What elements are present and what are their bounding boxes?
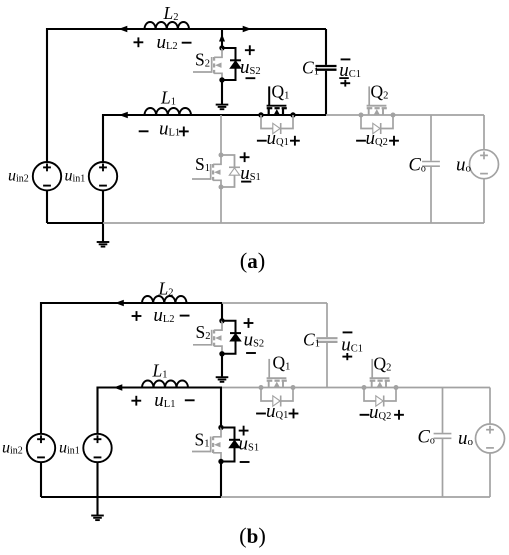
wire: C1 bottom lead (fig b, grey) bbox=[326, 343, 328, 388]
wire: S1 source down to bottom rail (fig a, grey) bbox=[220, 187, 222, 223]
transistor Q2 (fig b, grey) bbox=[385, 381, 387, 388]
junction node S2 source (fig b) bbox=[219, 351, 224, 356]
polarity + of uS2 (fig b) bbox=[244, 322, 254, 324]
current arrow on L1 rail pointing left (fig a) bbox=[119, 112, 128, 119]
polarity - of uS2 (fig b) bbox=[246, 352, 256, 354]
transistor Q1 (fig a, active black) bbox=[282, 108, 284, 115]
current arrow pointing right on top rail toward C1 (fig a) bbox=[243, 26, 252, 33]
polarity - of uL1 (fig a) bbox=[139, 130, 149, 132]
polarity + of uL1 (fig b) bbox=[131, 400, 141, 402]
inductor L2 (fig a) bbox=[145, 22, 190, 29]
junction node Q1 left (fig a) bbox=[258, 112, 263, 117]
polarity + of uS1 (fig a) bbox=[240, 156, 250, 158]
ground symbol below uin1 (fig b) bbox=[91, 515, 104, 517]
wire: output right branch top (fig a, grey) bbox=[483, 115, 485, 150]
switch S1 MOSFET (fig b, grey) bbox=[213, 428, 221, 437]
transistor Q1 (fig b, grey) bbox=[282, 381, 284, 388]
body diode of S1 (fig a, grey hollow) bbox=[221, 155, 235, 187]
wire: S1 source down to bottom rail (fig b) bbox=[220, 462, 222, 498]
wire: mid rail grey from S1 corner to output (fig b) bbox=[222, 387, 490, 389]
value label -uQ1+ (fig a) bbox=[257, 140, 267, 142]
wire: uin2 negative lead down (fig a) bbox=[46, 190, 48, 223]
wire: bottom rail black segment uin2 to uin1 (fig a) bbox=[47, 222, 103, 224]
value label -uQ1+ (fig b) bbox=[256, 413, 266, 415]
wire: output right branch bottom (fig b, grey) bbox=[489, 453, 491, 497]
ground symbol below S2 (fig b) bbox=[216, 376, 229, 378]
wire: Co top lead (fig b, grey) bbox=[442, 388, 444, 433]
wire: bottom rail black uin2 to S1 (fig b) bbox=[41, 496, 221, 498]
current arrow up on S2 drain wire (fig a) bbox=[219, 34, 225, 42]
junction node S1 drain (fig a, grey) bbox=[219, 153, 224, 158]
voltage source uin1 (fig a) bbox=[89, 162, 117, 190]
value label -uQ2+ (fig b) bbox=[360, 414, 370, 416]
polarity - of uS2 (fig a) bbox=[246, 77, 256, 79]
wire: C1 bottom lead to mid rail (fig a) bbox=[325, 71, 327, 115]
voltage source uin2 (fig b) bbox=[27, 434, 55, 462]
polarity - of uL1 (fig b) bbox=[185, 399, 195, 401]
wire: S2 source to ground (fig b) bbox=[221, 354, 223, 377]
body diode of Q2 (fig a, grey hollow) bbox=[361, 115, 393, 129]
wire: S2 source to ground (fig a) bbox=[221, 80, 223, 104]
voltage source uin1 (fig b) bbox=[83, 434, 111, 462]
switch S1 MOSFET (fig a, grey) bbox=[213, 155, 221, 164]
capacitor Co (fig a, grey) bbox=[422, 161, 440, 163]
polarity - of uC1 (fig a) bbox=[341, 58, 351, 60]
polarity + of uS2 (fig a) bbox=[245, 49, 255, 51]
wire: Co top lead (fig a, grey) bbox=[430, 115, 432, 161]
current arrow on top rail pointing left (fig a) bbox=[119, 26, 128, 33]
junction node Q1 left (fig b, grey) bbox=[259, 385, 264, 390]
wire: C1 top lead (fig b, grey) bbox=[326, 303, 328, 337]
capacitor Co (fig b, grey) bbox=[434, 433, 452, 435]
body diode of Q1 (fig b, grey hollow) bbox=[261, 388, 293, 402]
wire: C1 top lead (fig a) bbox=[325, 29, 327, 65]
inductor L1 (fig b) bbox=[142, 381, 188, 388]
wire: uin1 negative lead down to ground (fig a) bbox=[102, 190, 104, 241]
wire: mid rail grey from C1 to output corner (fig a) bbox=[326, 114, 484, 116]
junction node S2 source (fig a) bbox=[219, 77, 224, 82]
wire: Co bottom lead (fig b, grey) bbox=[442, 439, 444, 497]
wire: top rail black from left corner to S2 corner (fig b) bbox=[41, 303, 222, 434]
junction node Q1 right (fig b, grey) bbox=[291, 385, 296, 390]
polarity - of uL2 (fig a) bbox=[182, 42, 192, 44]
svg-text:(a): (a) bbox=[240, 248, 266, 273]
junction node S2 drain (fig b) bbox=[219, 318, 224, 323]
polarity - of uS1 (fig b) bbox=[240, 461, 250, 463]
voltage source uin2 (fig a) bbox=[33, 162, 61, 190]
wire: uin2 negative lead down (fig b) bbox=[40, 462, 42, 497]
polarity - of uS1 drawn under u (fig a) bbox=[241, 181, 251, 183]
wire: top rail grey from S2 corner to C1 (fig b) bbox=[222, 302, 327, 304]
wire: bottom rail grey from uin1 to output (fig a) bbox=[103, 222, 484, 224]
junction node S1 source (fig a, grey) bbox=[219, 185, 224, 190]
value label -uQ2+ (fig a) bbox=[356, 140, 366, 142]
junction node Q2 right (fig a, grey) bbox=[391, 113, 396, 118]
polarity + of uC1 (fig b) bbox=[342, 356, 352, 358]
switch S2 MOSFET (fig b, grey) bbox=[214, 321, 222, 330]
junction node Q2 right (fig b, grey) bbox=[394, 385, 399, 390]
polarity - of uL2 (fig b) bbox=[180, 315, 190, 317]
wire: Co bottom lead (fig a, grey) bbox=[430, 167, 432, 223]
wire: output right branch bottom (fig a, grey) bbox=[483, 179, 485, 223]
junction node Q2 left (fig b, grey) bbox=[362, 385, 367, 390]
svg-text:(b): (b) bbox=[239, 523, 266, 548]
junction node S1 drain (fig b) bbox=[218, 425, 223, 430]
polarity + of uL2 (fig b) bbox=[132, 315, 142, 317]
wire: S2 drain drop (fig b) bbox=[221, 303, 223, 321]
wire: output right branch top (fig b, grey) bbox=[489, 388, 491, 425]
current arrow on top rail pointing left (fig b) bbox=[115, 300, 124, 307]
body diode of S2 (fig b, black) bbox=[222, 321, 236, 354]
wire: top rail from left corner to C1 (fig a) bbox=[47, 29, 326, 162]
capacitor C1 (fig b, grey) bbox=[317, 337, 338, 339]
wire: bottom rail grey from S1 to output (fig b) bbox=[221, 496, 490, 498]
polarity + of uL1 (fig a) bbox=[179, 130, 189, 132]
wire: L1 rail black from uin1 corner to S1 corner (fig b) bbox=[98, 388, 222, 435]
current arrow on L1 rail pointing left (fig b) bbox=[114, 384, 123, 391]
body diode of Q1 (fig a, grey) bbox=[261, 115, 293, 129]
wire: S1 branch from mid rail down (fig a, grey) bbox=[220, 115, 222, 155]
junction node S1 source (fig b) bbox=[218, 459, 223, 464]
junction node S2 drain (fig a) bbox=[219, 45, 224, 50]
polarity + of uS1 (fig b) bbox=[239, 430, 249, 432]
polarity + of uC1 (fig a) bbox=[340, 82, 350, 84]
junction node Q2 left (fig a, grey) bbox=[359, 113, 364, 118]
junction node Q1 right (fig a) bbox=[290, 112, 295, 117]
body diode of S1 (fig b, black) bbox=[221, 428, 235, 462]
wire: mid rail from uin1 corner through L1, S1 node, Q1 to C1 (fig a) bbox=[103, 115, 326, 162]
ground symbol below uin1 (fig a) bbox=[97, 241, 110, 243]
polarity + of uL2 (fig a) bbox=[134, 41, 144, 43]
voltage source uo (fig a, grey) bbox=[470, 150, 499, 179]
polarity - of uC1 (fig b) bbox=[343, 331, 353, 333]
switch S2 MOSFET (fig a, inactive grey) bbox=[214, 48, 222, 57]
ground symbol below S2 (fig a) bbox=[216, 104, 229, 106]
transistor Q2 (fig a, grey) bbox=[382, 108, 384, 115]
inductor L1 (fig a) bbox=[145, 108, 192, 115]
body diode of S2 (fig a, conducting black) bbox=[222, 48, 236, 80]
body diode of Q2 (fig b, grey hollow) bbox=[364, 388, 396, 402]
voltage source uo (fig b, grey) bbox=[476, 424, 505, 453]
wire: uin1 negative lead down to ground (fig b) bbox=[96, 462, 98, 515]
inductor L2 (fig b) bbox=[142, 296, 187, 303]
capacitor C1 (fig a) bbox=[316, 65, 337, 67]
wire: S2 drain drop from top rail (fig a) bbox=[221, 29, 223, 48]
